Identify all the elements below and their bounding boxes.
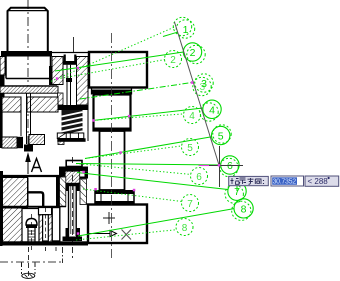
svg-text:2: 2: [170, 55, 176, 66]
svg-text:2: 2: [190, 47, 196, 59]
svg-text:8: 8: [241, 203, 247, 215]
svg-text:4: 4: [189, 111, 195, 122]
svg-text:8: 8: [182, 223, 188, 234]
svg-text:5: 5: [218, 131, 224, 143]
svg-text:7: 7: [234, 186, 240, 198]
svg-text:7: 7: [187, 199, 193, 210]
svg-text:5: 5: [187, 143, 193, 154]
svg-text:< 288: < 288: [308, 177, 329, 186]
svg-text:4: 4: [209, 104, 215, 116]
svg-text:3: 3: [199, 81, 205, 93]
svg-text:6: 6: [196, 172, 202, 183]
svg-text:30.7352: 30.7352: [273, 179, 297, 186]
